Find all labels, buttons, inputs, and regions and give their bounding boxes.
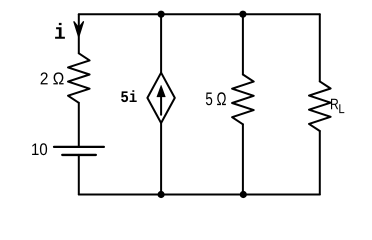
battery V1 long plate (54, 146, 104, 148)
junction dot top node at 5 ohm branch (239, 11, 246, 18)
junction dot bottom node at 5 ohm branch (240, 191, 247, 198)
wire left branch lower lead (78, 155, 80, 195)
label 5 ohm (206, 92, 226, 105)
wire top bus (79, 13, 320, 15)
resistor 2 ohm (68, 53, 90, 103)
label L subscript (RL) (339, 104, 344, 113)
resistor 5 ohm (232, 75, 254, 125)
wire middle branch lower lead (160, 123, 162, 195)
dependent current source 5i diamond (147, 73, 174, 123)
label 2 ohm (41, 72, 64, 84)
label R (RL) (331, 99, 338, 110)
label 10 (32, 143, 47, 155)
label i (55, 23, 65, 39)
wire RL branch lower lead (319, 131, 321, 195)
current arrow i on left branch (74, 22, 83, 37)
junction dot top node at 5i branch (158, 11, 165, 18)
wire middle branch upper lead (160, 14, 162, 72)
label 5i (121, 90, 137, 102)
wire 5 ohm branch lower lead (242, 124, 244, 194)
wire left branch upper lead (78, 14, 80, 53)
wire 5 ohm branch upper lead (242, 14, 244, 74)
wire RL branch upper lead (319, 14, 321, 81)
battery V1 short plate (62, 154, 96, 156)
wire left branch between resistor and battery (78, 103, 80, 147)
current source arrow (inside diamond) shaft (160, 94, 162, 115)
wire bottom bus (79, 194, 320, 196)
resistor RL (309, 81, 331, 131)
junction dot bottom node at 5i branch (158, 191, 165, 198)
current source arrow head (157, 85, 165, 97)
